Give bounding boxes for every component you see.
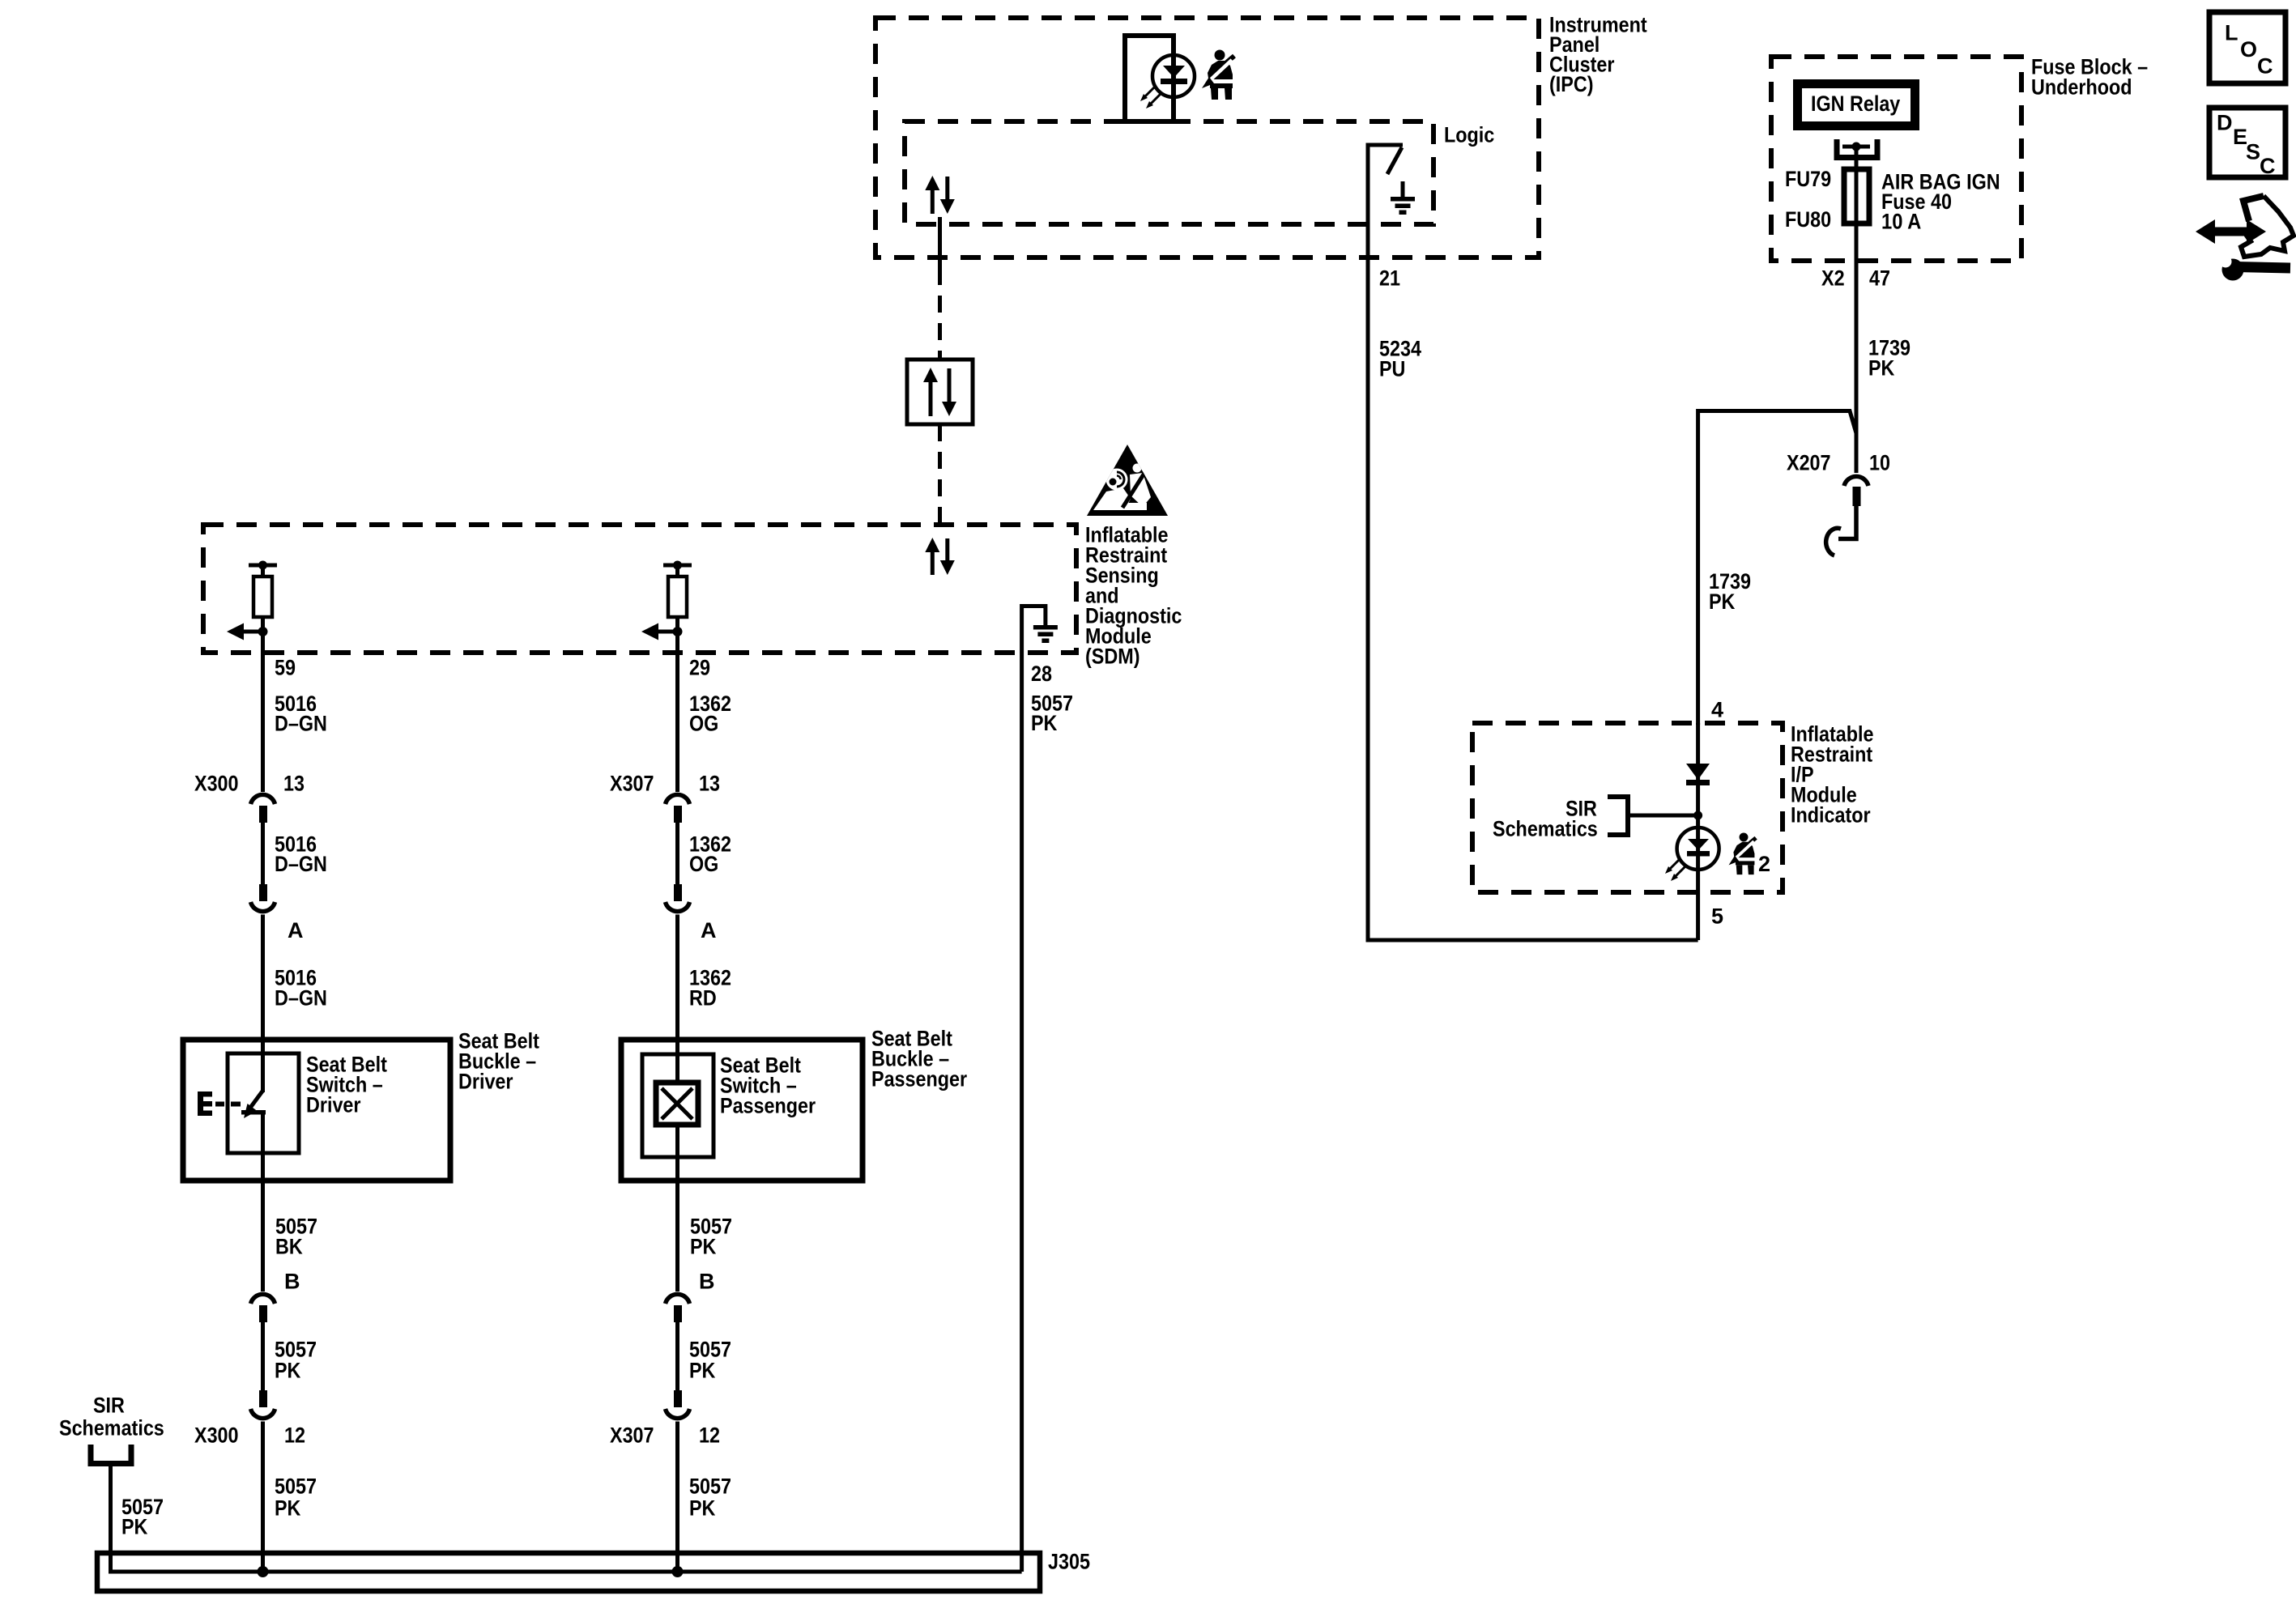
svg-text:(SDM): (SDM) <box>1085 645 1140 669</box>
svg-text:13: 13 <box>699 772 720 796</box>
wire to splice (driver) <box>261 1422 265 1572</box>
svg-text:PK: PK <box>1031 711 1058 735</box>
resistor (passenger sense) in SDM <box>663 561 692 653</box>
label Seat Belt Buckle - Passenger <box>871 1027 968 1091</box>
wire between connectors (driver) <box>261 823 265 884</box>
label SIR Schematics (indicator) <box>1493 797 1598 841</box>
relay output terminal bracket <box>1837 139 1877 158</box>
label 5057 PK (passenger upper) <box>690 1215 732 1259</box>
svg-text:PK: PK <box>275 1359 301 1383</box>
svg-text:X307: X307 <box>610 1423 654 1448</box>
svg-text:PK: PK <box>690 1235 717 1259</box>
connector B (passenger) <box>666 1294 690 1322</box>
SIR Schematics tie bracket (indicator) <box>1608 797 1698 835</box>
label Seat Belt Switch - Passenger <box>720 1053 816 1118</box>
svg-text:Schematics: Schematics <box>59 1416 164 1440</box>
svg-text:Indicator: Indicator <box>1791 803 1871 828</box>
svg-text:29: 29 <box>689 656 710 680</box>
label SIR Schematics (bottom left) <box>59 1394 164 1440</box>
wire from SIR bracket to splice <box>111 1464 1022 1572</box>
label Seat Belt Buckle - Driver <box>458 1029 539 1094</box>
junction node (passenger wire at splice) <box>672 1566 684 1577</box>
svg-text:OG: OG <box>689 712 718 736</box>
svg-text:C: C <box>2260 154 2276 178</box>
label 1739 PK (lower) <box>1709 569 1751 614</box>
svg-text:D–GN: D–GN <box>275 986 327 1011</box>
splice package J305 outline <box>97 1553 1040 1591</box>
serial data arrows inside SDM <box>925 538 955 575</box>
label X300 12 <box>194 1423 305 1448</box>
wire between connectors lower (passenger) <box>675 1322 679 1390</box>
serial data arrows inside IPC logic box <box>925 176 955 214</box>
wire 5234 PU from indicator to IPC pin 21 <box>1368 257 1698 940</box>
svg-text:A: A <box>701 918 717 943</box>
wire to driver switch <box>261 915 265 1040</box>
airbag warning triangle icon <box>1087 445 1168 516</box>
svg-text:21: 21 <box>1379 266 1400 291</box>
buckle engagement linkage E symbol <box>198 1091 241 1116</box>
svg-text:X300: X300 <box>194 772 239 796</box>
Seat Belt Switch - Passenger inner box <box>642 1054 714 1157</box>
label 5057 PK (SDM ground wire) <box>1031 691 1073 736</box>
svg-text:B: B <box>699 1270 715 1294</box>
svg-text:D–GN: D–GN <box>275 852 327 876</box>
IPC logic inner dashed box <box>905 121 1433 224</box>
label X2 47 <box>1821 266 1890 291</box>
driver switch symbol <box>241 1040 266 1181</box>
Seat Belt Switch - Driver inner box <box>228 1053 299 1153</box>
svg-text:D–GN: D–GN <box>275 712 327 736</box>
label 5057 PK (SIR wire) <box>121 1495 164 1539</box>
svg-text:PK: PK <box>689 1359 716 1383</box>
label 1362 RD <box>689 966 731 1011</box>
indicator lamp LED symbol in IPC <box>1125 36 1195 121</box>
wire to passenger switch <box>675 915 679 1040</box>
connector X307 pin 12 <box>666 1390 690 1419</box>
svg-text:SIR: SIR <box>93 1394 125 1418</box>
svg-text:FU80: FU80 <box>1785 207 1831 232</box>
svg-text:13: 13 <box>283 772 305 796</box>
Seat Belt Buckle - Passenger box <box>621 1040 863 1181</box>
label 1362 OG (mid) <box>689 832 731 877</box>
label 5057 BK <box>275 1215 317 1259</box>
connector X307 pin 13 <box>666 794 690 823</box>
wire through indicator <box>1696 723 1700 940</box>
svg-text:28: 28 <box>1031 662 1052 686</box>
svg-text:X300: X300 <box>194 1423 239 1448</box>
label Seat Belt Switch - Driver <box>306 1053 387 1117</box>
label Inflatable Restraint Sensing and Diagnostic Module (SDM) <box>1085 523 1182 669</box>
label AIR BAG IGN Fuse 40 10 A <box>1881 170 2000 234</box>
Fuse Block dashed module box <box>1771 57 2021 261</box>
svg-text:2: 2 <box>1758 852 1770 876</box>
connector A (driver buckle) <box>251 884 275 912</box>
svg-text:C: C <box>2257 54 2273 79</box>
svg-text:J305: J305 <box>1048 1550 1090 1574</box>
svg-text:10 A: 10 A <box>1881 210 1921 234</box>
svg-text:A: A <box>288 918 304 943</box>
serial data box symbol <box>907 360 973 424</box>
seat belt icon with 2 (indicator) <box>1729 832 1757 874</box>
svg-text:12: 12 <box>699 1423 720 1448</box>
svg-text:O: O <box>2240 37 2257 62</box>
svg-text:5057: 5057 <box>689 1474 731 1499</box>
passenger presence sensor X-box symbol <box>656 1040 698 1181</box>
wire from IPC logic down (solid stub) <box>938 217 942 268</box>
svg-text:BK: BK <box>275 1235 303 1259</box>
svg-text:PK: PK <box>275 1496 301 1521</box>
svg-text:X2: X2 <box>1821 266 1845 291</box>
wire below passenger box <box>675 1181 679 1291</box>
svg-text:4: 4 <box>1711 698 1723 722</box>
svg-text:PU: PU <box>1379 357 1405 381</box>
svg-text:PK: PK <box>121 1515 148 1539</box>
wire between connectors (passenger) <box>675 823 679 884</box>
driver column wire upper <box>261 653 265 792</box>
svg-text:PK: PK <box>1709 589 1736 614</box>
label 5234 PU <box>1379 337 1421 381</box>
svg-text:B: B <box>284 1270 300 1294</box>
wire between connectors lower (driver) <box>261 1322 265 1390</box>
svg-text:12: 12 <box>284 1423 305 1448</box>
LED lamp symbol in indicator <box>1665 828 1719 881</box>
connector X300 pin 13 <box>251 794 275 823</box>
svg-text:PK: PK <box>689 1496 716 1521</box>
ground symbol (SDM) <box>1033 625 1058 643</box>
internal ground hook in SDM <box>1022 606 1046 653</box>
junction node in indicator <box>1693 811 1702 820</box>
label 5057 PK (driver bottom) <box>275 1474 317 1521</box>
svg-text:59: 59 <box>275 656 296 680</box>
Seat Belt Buckle - Driver box <box>183 1040 450 1181</box>
svg-text:PK: PK <box>1868 356 1895 381</box>
label X300 13 <box>194 772 305 796</box>
label X207 10 <box>1787 451 1890 475</box>
wire from SDM ground pin 28 down to splice <box>1020 653 1024 1572</box>
svg-text:IGN Relay: IGN Relay <box>1811 91 1900 116</box>
wire from relay through fuse down to X207 <box>1855 147 1859 473</box>
branch wire to indicator (jog) <box>1698 411 1856 726</box>
unused lead pigtail below X207 <box>1826 506 1856 555</box>
label 5057 PK (passenger bottom) <box>689 1474 731 1521</box>
wire to splice (passenger) <box>675 1422 679 1572</box>
label 5016 D-GN (top left) <box>275 691 327 736</box>
svg-text:5: 5 <box>1711 904 1723 929</box>
diode D in indicator <box>1686 764 1710 785</box>
svg-text:Driver: Driver <box>306 1093 361 1117</box>
label 5016 D-GN (lower left) <box>275 966 327 1011</box>
label Inflatable Restraint I/P Module Indicator <box>1791 722 1874 828</box>
svg-text:OG: OG <box>689 852 718 876</box>
node and arrow (passenger sense) <box>641 623 683 640</box>
label 5057 PK (passenger mid) <box>689 1338 731 1383</box>
schematic navigation icon (arrow and wrench) <box>2196 196 2294 281</box>
fuse AIR BAG IGN Fuse 40 10A <box>1844 169 1869 223</box>
svg-text:Schematics: Schematics <box>1493 817 1598 841</box>
ground symbol (IPC logic) <box>1391 181 1415 215</box>
svg-text:Underhood: Underhood <box>2031 75 2132 100</box>
wire below driver box <box>261 1181 265 1291</box>
connector A (passenger buckle) <box>666 884 690 912</box>
SDM dashed module box <box>203 525 1076 653</box>
label X307 12 <box>610 1423 720 1448</box>
logic switch to ground in IPC <box>1368 145 1403 257</box>
label Fuse Block - Underhood <box>2031 55 2148 100</box>
svg-text:Logic: Logic <box>1444 123 1494 147</box>
label 1362 OG (top mid) <box>689 691 731 736</box>
dashed serial data wire lower <box>938 424 942 525</box>
svg-text:RD: RD <box>689 986 717 1011</box>
svg-text:Driver: Driver <box>458 1070 513 1094</box>
connector B (driver) <box>251 1294 275 1322</box>
svg-text:10: 10 <box>1869 451 1890 475</box>
connector X207 pin 10 <box>1844 476 1868 506</box>
svg-text:Passenger: Passenger <box>871 1067 968 1091</box>
junction node (driver wire at splice) <box>258 1566 269 1577</box>
svg-text:(IPC): (IPC) <box>1549 72 1594 96</box>
svg-text:X207: X207 <box>1787 451 1831 475</box>
node and arrow (driver sense) <box>227 623 268 640</box>
svg-text:L: L <box>2225 21 2238 45</box>
resistor (driver sense) in SDM <box>249 561 277 653</box>
svg-text:47: 47 <box>1869 266 1890 291</box>
label 1739 PK (upper) <box>1868 336 1910 381</box>
svg-text:S: S <box>2246 140 2260 164</box>
IPC outer dashed module box <box>875 18 1539 257</box>
dashed serial data wire upper <box>938 268 942 360</box>
label 5057 PK (driver mid) <box>275 1338 317 1383</box>
passenger column wire upper <box>675 653 679 792</box>
seat belt fastened icon in IPC <box>1202 50 1234 100</box>
svg-text:D: D <box>2217 111 2233 135</box>
svg-text:X307: X307 <box>610 772 654 796</box>
connector X300 pin 12 <box>251 1390 275 1419</box>
Inflatable Restraint I/P Module Indicator dashed box <box>1472 723 1783 892</box>
svg-text:5057: 5057 <box>275 1474 317 1499</box>
label Instrument Panel Cluster (IPC) <box>1549 13 1647 97</box>
label 5016 D-GN (mid left) <box>275 832 327 877</box>
DESC legend box <box>2209 108 2285 178</box>
LOC legend box <box>2209 12 2285 83</box>
SIR Schematics tie bracket (bottom left) <box>91 1445 131 1464</box>
IGN Relay block <box>1793 79 1919 130</box>
svg-text:FU79: FU79 <box>1785 167 1831 191</box>
label X307 13 <box>610 772 720 796</box>
svg-text:Passenger: Passenger <box>720 1094 816 1118</box>
